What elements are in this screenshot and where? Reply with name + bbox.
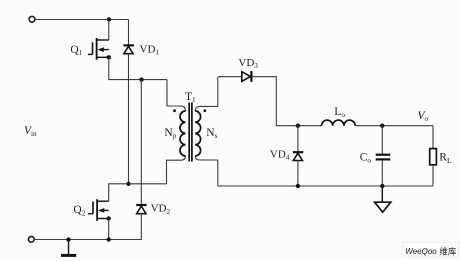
wire VD4 lower <box>297 161 299 187</box>
wire Co lower <box>381 160 383 186</box>
label VD4 <box>270 148 290 161</box>
wire secondary top lead <box>195 77 218 111</box>
wire Co upper <box>381 126 383 154</box>
label Q1 <box>70 44 82 57</box>
svg-text:WeeQoo: WeeQoo <box>405 247 437 256</box>
label Np <box>164 127 176 140</box>
node ground tap junction <box>66 237 70 241</box>
transistor Q1 (N-MOSFET) <box>88 38 109 60</box>
node VD4 anode junction <box>296 184 300 188</box>
diode VD2 <box>136 205 146 214</box>
wire output bottom rail <box>218 185 433 187</box>
wire primary top lead <box>167 80 185 111</box>
wire secondary bottom lead <box>195 156 218 186</box>
node VD1 anode / Q2 drain rail junction <box>126 182 130 186</box>
node VD4 cathode junction <box>296 124 300 128</box>
transformer T1 primary winding Np <box>180 111 185 156</box>
wire VD1 branch upper <box>128 20 130 46</box>
wire primary bottom lead <box>167 156 186 184</box>
wire VD4 upper <box>297 126 299 152</box>
label RL <box>439 152 451 165</box>
inductor Lo <box>322 120 356 126</box>
wire Q2 drain rail <box>109 184 167 201</box>
node primary phase dot <box>173 109 176 112</box>
terminal Vin+ <box>29 16 35 22</box>
wire VD1 branch lower <box>128 54 130 184</box>
wire top rail <box>35 19 128 21</box>
wire VD2 branch lower <box>109 214 142 240</box>
diode VD3 <box>242 71 252 82</box>
label VD3 <box>238 57 258 70</box>
wire output top rail right <box>355 125 433 127</box>
label VD2 <box>151 203 171 216</box>
node Co bottom / ground junction <box>380 184 384 188</box>
resistor RL <box>430 149 437 165</box>
label Co <box>360 151 372 164</box>
wire VD3 cathode to output rail <box>251 77 276 126</box>
transformer T1 core <box>189 103 192 162</box>
transformer T1 secondary winding Ns <box>195 111 200 156</box>
wire Q2 source <box>108 219 110 240</box>
wire Q1 drain <box>108 20 110 41</box>
svg-text:维库: 维库 <box>439 247 457 257</box>
label Q2 <box>73 204 85 217</box>
label Vin <box>24 125 37 138</box>
node Q1 source junction <box>107 55 111 59</box>
wire node-A rail (midpoint) <box>109 79 167 81</box>
node Q2 source / bottom rail junction <box>107 237 111 241</box>
wire VD3 anode lead <box>218 76 242 78</box>
label Vo <box>418 110 429 123</box>
label Ns <box>206 127 217 140</box>
diode VD1 <box>123 45 134 53</box>
wire RL lower <box>432 165 434 186</box>
wire Q1 source <box>108 57 110 79</box>
node secondary phase dot <box>203 109 206 112</box>
wire output top rail left <box>276 125 321 127</box>
wire VD2 branch upper <box>140 80 142 205</box>
label Lo <box>334 106 345 119</box>
wire bottom rail <box>34 239 141 241</box>
wire RL branch <box>432 126 434 149</box>
label VD1 <box>140 43 160 56</box>
label T1 <box>185 91 196 104</box>
node Q2 source junction <box>107 216 111 220</box>
ground (input side bar) <box>61 240 76 256</box>
diode VD4 <box>293 152 303 160</box>
watermark WeeQoo <box>403 242 459 257</box>
capacitor Co <box>376 155 391 160</box>
ground (output side triangle) <box>375 186 391 212</box>
node A / VD2 cathode junction <box>139 77 143 81</box>
node top rail / Q1 drain junction <box>107 17 111 21</box>
transistor Q2 (N-MOSFET) <box>88 199 109 221</box>
node Co top junction <box>380 124 384 128</box>
terminal Vin- <box>28 236 34 242</box>
